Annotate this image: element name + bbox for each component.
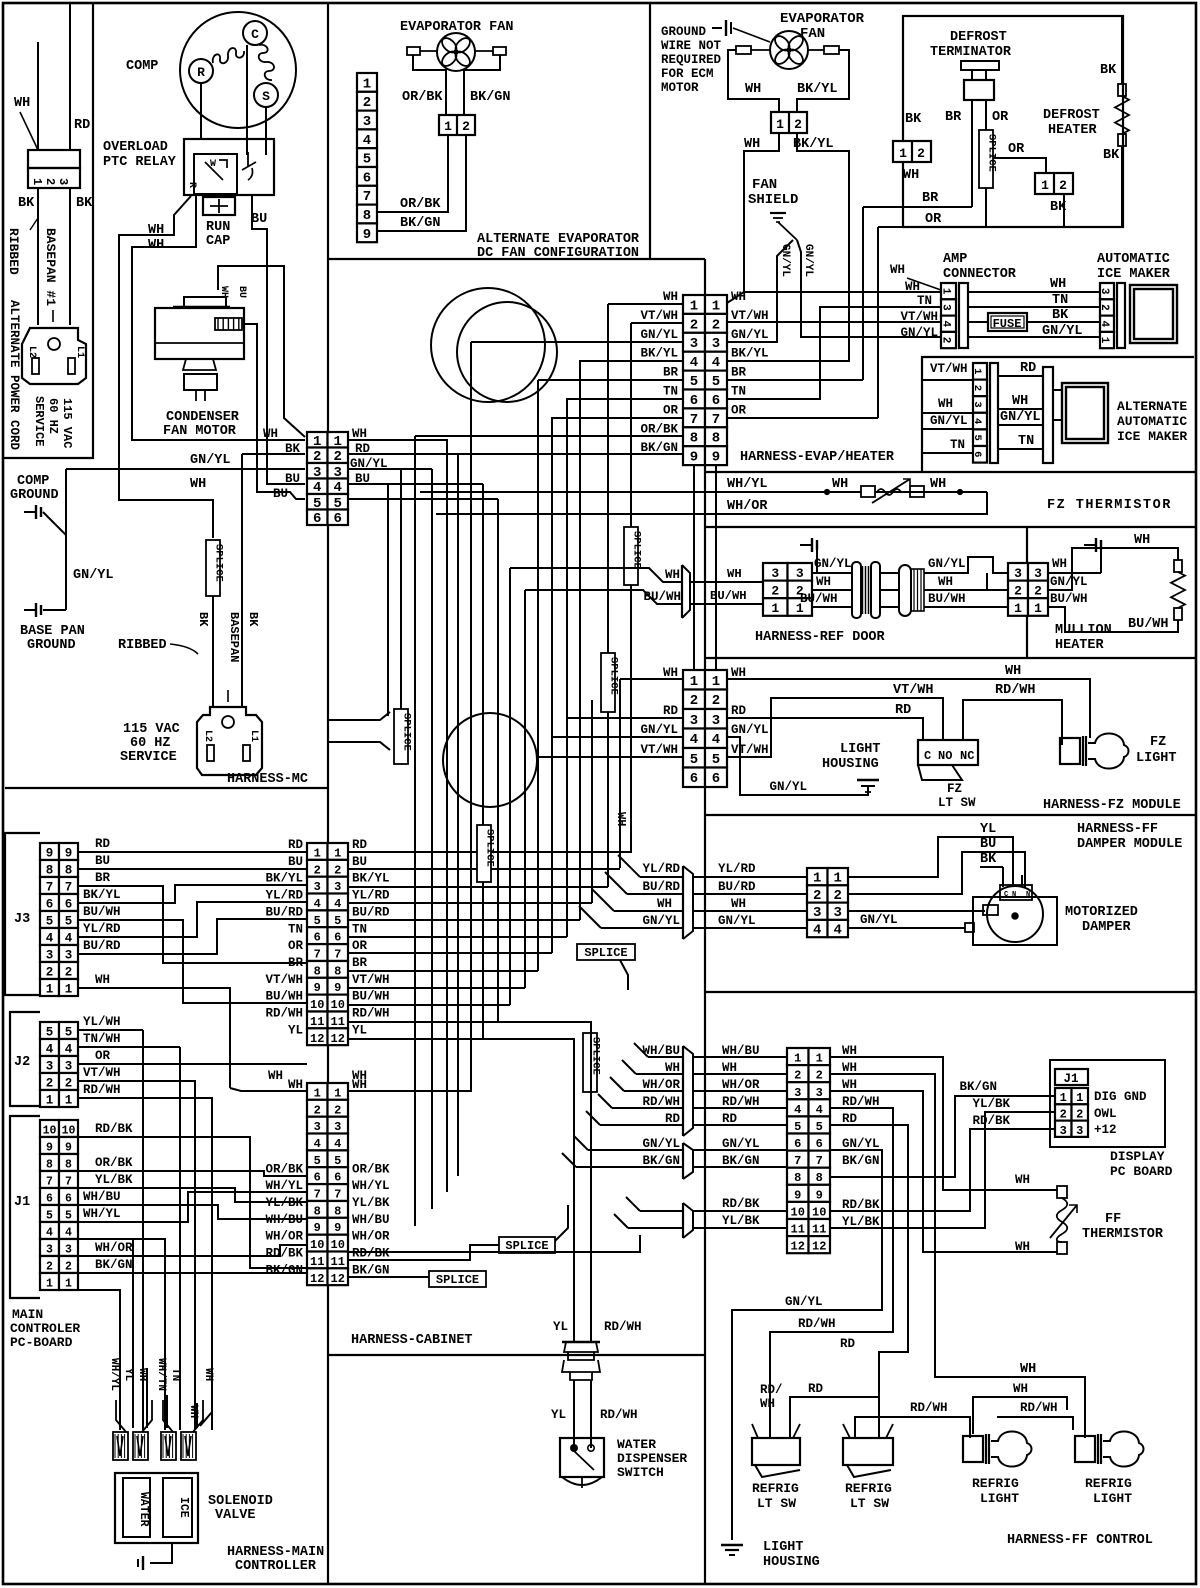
display pc board box <box>1050 1060 1165 1147</box>
svg-text:5: 5 <box>65 1026 73 1040</box>
svg-text:R: R <box>186 182 197 188</box>
solenoid valve box <box>115 1473 198 1543</box>
svg-text:BK: BK <box>285 442 301 456</box>
svg-text:BK: BK <box>1052 308 1069 323</box>
svg-text:CONTROLLER: CONTROLLER <box>235 1559 317 1574</box>
svg-text:DEFROST: DEFROST <box>950 30 1007 45</box>
svg-text:ALTERNATE POWER CORD: ALTERNATE POWER CORD <box>7 300 21 451</box>
wire GN/YL pin4 to damper <box>848 927 965 929</box>
panel border: fz thermistor bottom / ref door top y=527 <box>705 526 1196 528</box>
svg-text:3: 3 <box>940 304 952 311</box>
fan terminal left <box>407 47 420 55</box>
svg-text:J1: J1 <box>14 1195 30 1210</box>
svg-text:5: 5 <box>794 1120 801 1134</box>
svg-text:BK: BK <box>905 112 922 127</box>
svg-text:6: 6 <box>334 931 341 945</box>
svg-text:5: 5 <box>334 914 341 928</box>
svg-text:1: 1 <box>690 298 698 314</box>
svg-text:RIBBED: RIBBED <box>6 228 21 275</box>
svg-text:GN/YL: GN/YL <box>731 328 769 342</box>
wire BK 1-2 left down <box>902 162 904 227</box>
panel border: main vertical divider x=705 <box>704 259 706 1583</box>
wire BK/GN to J1 <box>830 1096 1055 1177</box>
wire BU row4 down x388 <box>387 484 389 716</box>
svg-text:OR: OR <box>1008 142 1025 157</box>
svg-text:VT/WH: VT/WH <box>731 309 769 323</box>
svg-text:9: 9 <box>314 981 321 995</box>
svg-text:2: 2 <box>462 119 470 134</box>
svg-text:VT/WH: VT/WH <box>640 743 678 757</box>
svg-text:GN/YL: GN/YL <box>842 1137 880 1151</box>
svg-text:WH/TN: WH/TN <box>155 1358 167 1391</box>
svg-text:GN/YL: GN/YL <box>785 1295 823 1309</box>
svg-text:WH: WH <box>731 290 746 304</box>
fz thermistor symbol <box>861 486 875 497</box>
wire OR from splice down <box>878 188 986 227</box>
svg-text:10: 10 <box>331 1238 345 1252</box>
svg-text:2: 2 <box>314 863 321 877</box>
dispenser cable connector <box>562 1341 600 1343</box>
wire WH/YL top <box>705 491 861 493</box>
svg-text:3: 3 <box>46 949 54 963</box>
svg-text:WH: WH <box>1050 277 1066 292</box>
svg-text:YL/WH: YL/WH <box>83 1015 121 1029</box>
svg-text:1: 1 <box>363 76 371 92</box>
svg-text:9: 9 <box>46 847 54 861</box>
svg-text:CONNECTOR: CONNECTOR <box>943 267 1017 282</box>
fan loop wires to 1-2 connector <box>728 50 779 112</box>
splice vertical left x401 <box>394 709 408 764</box>
svg-text:3: 3 <box>334 1120 341 1134</box>
svg-text:BK: BK <box>246 612 260 627</box>
svg-text:4: 4 <box>314 1137 321 1151</box>
svg-text:J3: J3 <box>14 912 30 927</box>
svg-text:HARNESS-FF: HARNESS-FF <box>1077 822 1158 837</box>
svg-text:1: 1 <box>46 1094 54 1108</box>
svg-text:FZ: FZ <box>947 782 962 796</box>
svg-text:GN/YL: GN/YL <box>860 913 898 927</box>
svg-text:1: 1 <box>776 117 784 132</box>
wire RD/BK to J1 <box>830 1129 1055 1211</box>
svg-text:HARNESS-CABINET: HARNESS-CABINET <box>351 1333 473 1348</box>
wires J3 to 12-pin upper <box>78 851 307 853</box>
svg-text:1: 1 <box>794 1052 801 1066</box>
wire WH splice to plug <box>212 596 214 707</box>
svg-text:1: 1 <box>1034 601 1042 616</box>
svg-text:3: 3 <box>46 1244 53 1257</box>
svg-text:WH: WH <box>657 897 672 911</box>
panel border: harness-fz module bottom y=815 <box>705 814 1196 816</box>
svg-text:GN/YL: GN/YL <box>722 1137 760 1151</box>
relay inner ptc element <box>194 154 237 194</box>
connector 1-2 evap fan <box>771 112 807 133</box>
svg-text:6: 6 <box>690 393 698 409</box>
svg-text:5: 5 <box>65 1210 72 1223</box>
svg-text:2: 2 <box>690 317 698 333</box>
svg-text:RD: RD <box>95 837 111 851</box>
svg-text:6: 6 <box>314 1171 321 1185</box>
wires cabinet to damper fanout <box>640 876 683 878</box>
svg-text:BASE PAN: BASE PAN <box>20 624 85 639</box>
svg-text:OR: OR <box>288 939 304 953</box>
fan terminal right <box>493 47 506 55</box>
svg-text:9: 9 <box>816 1188 823 1202</box>
svg-text:BU: BU <box>251 212 267 227</box>
connector J2 bracket <box>10 1012 40 1106</box>
svg-text:COMP: COMP <box>126 59 158 74</box>
svg-text:GN/YL: GN/YL <box>1000 410 1041 425</box>
svg-text:6: 6 <box>334 1171 341 1185</box>
svg-text:RD/BK: RD/BK <box>265 1247 303 1261</box>
wire GN/YL to light housing ground <box>732 1150 882 1540</box>
svg-text:2: 2 <box>1060 1108 1067 1122</box>
wire WH light1 stub <box>973 1397 1067 1434</box>
svg-text:7: 7 <box>314 948 321 962</box>
svg-text:YL: YL <box>288 1023 303 1037</box>
svg-text:3: 3 <box>363 114 371 130</box>
svg-text:LIGHT: LIGHT <box>840 742 881 757</box>
svg-text:2: 2 <box>65 1261 72 1274</box>
svg-text:5: 5 <box>314 914 321 928</box>
alt ice maker wires right <box>998 375 1043 377</box>
wire OR row7 <box>727 417 878 419</box>
svg-text:RD: RD <box>808 1382 824 1396</box>
svg-text:BU/RD: BU/RD <box>265 905 303 919</box>
svg-text:10: 10 <box>310 1238 324 1252</box>
svg-text:HARNESS-REF DOOR: HARNESS-REF DOOR <box>755 630 886 645</box>
fan terminal boxes <box>736 46 751 54</box>
svg-text:WH/OR: WH/OR <box>265 1230 303 1244</box>
svg-text:HOUSING: HOUSING <box>822 757 879 772</box>
svg-text:8: 8 <box>690 431 698 447</box>
svg-text:3: 3 <box>971 401 983 407</box>
svg-text:2: 2 <box>46 966 54 980</box>
svg-text:R: R <box>197 65 205 80</box>
plug 115 VAC 60 HZ service <box>197 707 262 775</box>
svg-text:BK/YL: BK/YL <box>83 888 121 902</box>
verticals below 9-pin <box>693 465 695 670</box>
svg-text:BU: BU <box>352 855 367 869</box>
svg-text:RD: RD <box>842 1112 858 1126</box>
svg-text:7: 7 <box>712 412 720 428</box>
connector J3 cells <box>40 843 59 860</box>
svg-text:12: 12 <box>331 1032 345 1046</box>
svg-text:AUTOMATIC: AUTOMATIC <box>1117 414 1187 429</box>
svg-text:4: 4 <box>690 355 698 371</box>
svg-text:5: 5 <box>65 915 73 929</box>
svg-text:1: 1 <box>834 871 842 887</box>
svg-text:4: 4 <box>65 1227 72 1240</box>
svg-text:PTC RELAY: PTC RELAY <box>103 155 177 170</box>
wire WH to 9-pin pin1 <box>727 133 779 303</box>
svg-text:MULLION: MULLION <box>1055 623 1112 638</box>
svg-text:BU/RD: BU/RD <box>352 905 390 919</box>
svg-text:RD/WH: RD/WH <box>1020 1401 1058 1415</box>
splice vertical x632 <box>624 527 638 585</box>
svg-text:WH: WH <box>663 666 678 680</box>
svg-text:2: 2 <box>43 178 57 185</box>
svg-text:BK: BK <box>76 196 93 211</box>
svg-text:WATER: WATER <box>137 1492 150 1527</box>
wire GN/YL row3 down to splice <box>348 468 401 470</box>
svg-text:WH: WH <box>95 973 110 987</box>
svg-text:SPLICE: SPLICE <box>401 713 413 751</box>
svg-text:3: 3 <box>1060 1124 1067 1138</box>
svg-text:WH: WH <box>938 575 953 589</box>
svg-text:BK/GN: BK/GN <box>722 1154 760 1168</box>
svg-text:8: 8 <box>816 1171 823 1185</box>
svg-text:2: 2 <box>46 1077 54 1091</box>
svg-text:3: 3 <box>771 566 779 581</box>
svg-text:5: 5 <box>971 435 983 441</box>
svg-text:FAN MOTOR: FAN MOTOR <box>163 424 237 439</box>
wire RD/WH sw2 to light1 <box>855 1417 970 1438</box>
svg-text:BK/GN: BK/GN <box>470 90 511 105</box>
svg-text:2: 2 <box>1098 304 1110 311</box>
condenser motor mount <box>184 374 217 390</box>
svg-text:RD/BK: RD/BK <box>842 1198 880 1212</box>
svg-text:1: 1 <box>971 368 983 374</box>
svg-text:SPLICE: SPLICE <box>986 134 998 172</box>
connector harness-mc 6-pin <box>307 432 328 448</box>
wires into ref door panel <box>690 581 763 583</box>
svg-text:YL: YL <box>352 1023 367 1037</box>
wire BR from terminator <box>863 206 972 208</box>
svg-text:VT/WH: VT/WH <box>731 743 769 757</box>
wires left of third trapezoid <box>640 1210 683 1212</box>
svg-text:9: 9 <box>65 847 73 861</box>
svg-text:9: 9 <box>334 981 341 995</box>
svg-text:YL/BK: YL/BK <box>722 1214 760 1228</box>
svg-text:BU/WH: BU/WH <box>265 990 303 1004</box>
svg-text:OR: OR <box>731 403 747 417</box>
svg-text:11: 11 <box>310 1255 324 1269</box>
svg-text:2: 2 <box>794 117 802 132</box>
svg-text:WH: WH <box>1134 533 1150 548</box>
wires to right connector <box>924 557 1008 573</box>
svg-text:4: 4 <box>46 932 54 946</box>
ground ref door left <box>800 544 812 546</box>
svg-text:4: 4 <box>46 1227 53 1240</box>
wire RD/WH to lt sw1 <box>770 1108 893 1438</box>
svg-text:BK/YL: BK/YL <box>797 82 838 97</box>
water dispenser switch <box>560 1438 604 1477</box>
svg-text:COMP: COMP <box>17 474 49 489</box>
svg-text:4: 4 <box>816 1103 823 1117</box>
svg-text:YL/RD: YL/RD <box>642 862 680 876</box>
svg-text:3: 3 <box>1034 566 1042 581</box>
condenser fan motor body <box>155 308 244 359</box>
wire WH from J3 pin1 <box>78 988 230 1064</box>
svg-text:RD/WH: RD/WH <box>352 1007 390 1021</box>
svg-text:YL/BK: YL/BK <box>95 1173 133 1187</box>
svg-text:7: 7 <box>334 1188 341 1202</box>
svg-text:8: 8 <box>314 1204 321 1218</box>
svg-text:GN/YL: GN/YL <box>190 453 231 468</box>
svg-text:6: 6 <box>712 771 720 787</box>
svg-text:4: 4 <box>690 732 698 748</box>
coil C-S winding <box>259 45 274 80</box>
svg-text:9: 9 <box>334 1221 341 1235</box>
svg-text:WATER: WATER <box>617 1437 656 1452</box>
svg-text:RD: RD <box>352 838 368 852</box>
svg-text:11: 11 <box>331 1255 345 1269</box>
svg-text:WH/OR: WH/OR <box>727 499 768 514</box>
terminator legs <box>971 100 973 207</box>
damper pins block <box>1000 885 1032 900</box>
svg-text:J2: J2 <box>14 1055 30 1070</box>
svg-text:11: 11 <box>791 1223 805 1237</box>
svg-text:1: 1 <box>813 871 821 887</box>
svg-text:2: 2 <box>940 337 952 344</box>
svg-text:HEATER: HEATER <box>1055 638 1105 653</box>
wire YL <box>848 837 1013 887</box>
svg-text:WH: WH <box>744 137 760 152</box>
svg-text:9: 9 <box>794 1188 801 1202</box>
wire RD to sw2 <box>830 1125 908 1438</box>
svg-text:WH/YL: WH/YL <box>352 1179 390 1193</box>
svg-text:4: 4 <box>65 1043 73 1057</box>
solenoid ice cell <box>163 1478 192 1537</box>
svg-text:GN/YL: GN/YL <box>640 328 678 342</box>
svg-text:WH: WH <box>930 477 946 492</box>
wire BK/YL to pin4 row <box>727 133 849 361</box>
svg-text:BR: BR <box>945 110 962 125</box>
svg-text:LIGHT: LIGHT <box>980 1491 1019 1506</box>
svg-text:SPLICE: SPLICE <box>484 829 496 867</box>
svg-text:YL/RD: YL/RD <box>718 862 756 876</box>
wires wh/yl wh/or rows crossing bundle <box>420 491 705 493</box>
svg-text:BU: BU <box>95 854 110 868</box>
svg-text:BK/YL: BK/YL <box>731 347 769 361</box>
svg-text:WH/BU: WH/BU <box>352 1213 390 1227</box>
svg-text:GN/YL: GN/YL <box>928 557 966 571</box>
svg-text:GN/YL: GN/YL <box>731 723 769 737</box>
svg-text:RD/WH: RD/WH <box>265 1007 303 1021</box>
svg-text:WH: WH <box>745 82 761 97</box>
svg-text:TN: TN <box>1018 434 1034 449</box>
svg-text:3: 3 <box>712 713 720 729</box>
wire WH mullion top <box>1048 548 1178 590</box>
wire GN/YL row to 6-pin connector <box>66 468 305 470</box>
funnel wires left <box>119 1395 121 1428</box>
panel border: harness-ff damper bottom y=992 <box>705 991 1196 993</box>
svg-text:L1: L1 <box>248 730 259 742</box>
wire BK/GN to pin9 <box>377 135 466 231</box>
svg-text:6: 6 <box>46 1193 53 1206</box>
svg-text:REFRIG: REFRIG <box>972 1476 1019 1491</box>
wire WH r1 to ff thermistor top <box>830 1057 1057 1190</box>
svg-text:VT/WH: VT/WH <box>352 973 390 987</box>
wires rd/bk yl/bk lower <box>693 1210 787 1212</box>
svg-text:6: 6 <box>334 511 342 527</box>
svg-text:FZ: FZ <box>1150 735 1166 750</box>
svg-text:2: 2 <box>690 693 698 709</box>
svg-text:8: 8 <box>363 208 371 224</box>
splice horizontal x577 <box>577 944 635 960</box>
splice defrost <box>979 130 993 188</box>
svg-text:BU/RD: BU/RD <box>83 939 121 953</box>
svg-text:8: 8 <box>46 864 54 878</box>
svg-text:CONDENSER: CONDENSER <box>166 410 240 425</box>
fan shield ground <box>770 212 786 214</box>
fz light bulb <box>1060 738 1080 764</box>
svg-text:5: 5 <box>334 1154 341 1168</box>
svg-text:REFRIG: REFRIG <box>1085 1476 1132 1491</box>
wires ff trapezoid to 12-pin <box>693 1056 787 1058</box>
svg-text:BU/WH: BU/WH <box>1050 592 1088 606</box>
wires amp to ice maker <box>968 291 1100 293</box>
svg-text:RD/WH: RD/WH <box>722 1095 760 1109</box>
svg-text:1: 1 <box>1076 1091 1083 1105</box>
svg-text:3: 3 <box>65 1060 73 1074</box>
svg-text:BU: BU <box>288 855 303 869</box>
svg-text:12: 12 <box>310 1272 324 1286</box>
wires to switch <box>573 1380 575 1448</box>
svg-text:WH: WH <box>263 427 278 441</box>
funnel wires right <box>166 1395 168 1428</box>
svg-text:YL: YL <box>122 1368 134 1382</box>
svg-text:BR: BR <box>352 956 368 970</box>
svg-text:3: 3 <box>65 949 73 963</box>
svg-text:12: 12 <box>310 1032 324 1046</box>
wire RD to switch <box>727 718 923 740</box>
svg-text:4: 4 <box>834 923 842 939</box>
svg-text:WH: WH <box>731 666 746 680</box>
damper motor circle <box>987 886 1043 942</box>
wire WH r3 to ff thermistor bottom <box>830 1091 1057 1252</box>
svg-text:REFRIG: REFRIG <box>845 1481 892 1496</box>
wire S to relay <box>265 107 267 155</box>
svg-text:8: 8 <box>65 1159 72 1172</box>
wire BU from relay to pin4 <box>252 195 305 484</box>
svg-text:WH: WH <box>1013 1382 1028 1396</box>
wire BK/GN row to splice <box>348 1276 429 1278</box>
svg-text:7: 7 <box>794 1154 801 1168</box>
horizontals to 9-pin rows <box>608 303 683 305</box>
svg-text:9: 9 <box>46 1142 53 1155</box>
svg-text:4: 4 <box>363 133 371 149</box>
svg-text:5: 5 <box>46 1210 53 1223</box>
svg-text:WH: WH <box>218 286 229 298</box>
svg-text:9: 9 <box>712 450 720 466</box>
svg-text:12: 12 <box>331 1272 345 1286</box>
svg-text:NO: NO <box>938 749 952 763</box>
coil R-C winding <box>213 48 244 63</box>
svg-text:LIGHT: LIGHT <box>1136 751 1177 766</box>
svg-text:TN: TN <box>352 922 367 936</box>
condenser motor coupling hatched <box>215 318 242 330</box>
svg-text:RIBBED: RIBBED <box>118 638 167 653</box>
svg-text:OR/BK: OR/BK <box>402 90 443 105</box>
svg-text:WH/OR: WH/OR <box>642 1078 680 1092</box>
wire RD/BK row to splice <box>348 1245 499 1260</box>
svg-text:YL/RD: YL/RD <box>83 922 121 936</box>
door grommet capsule <box>899 565 911 616</box>
svg-text:BR: BR <box>922 191 939 206</box>
svg-text:10: 10 <box>62 1125 76 1138</box>
svg-text:BU/WH: BU/WH <box>1128 617 1169 632</box>
wires cabinet to ff fanout <box>648 1056 683 1058</box>
svg-text:GROUND: GROUND <box>10 488 59 503</box>
splice vertical x484 <box>477 825 491 882</box>
svg-text:J1: J1 <box>1063 1072 1078 1086</box>
svg-text:BU: BU <box>285 472 300 486</box>
big wire loop circles upper <box>431 288 545 402</box>
svg-text:3: 3 <box>690 336 698 352</box>
svg-text:RD/WH: RD/WH <box>604 1320 642 1334</box>
svg-text:RD: RD <box>663 704 679 718</box>
